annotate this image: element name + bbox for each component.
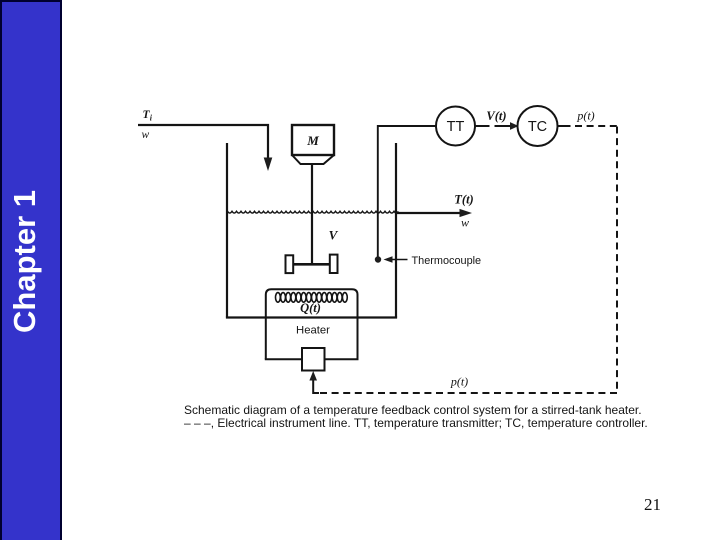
wire: dashed electrical line bottom to control valve — [309, 371, 617, 393]
svg-text:w: w — [142, 129, 150, 141]
svg-text:TC: TC — [528, 119, 547, 135]
stirrer blade right — [330, 255, 338, 273]
tank vessel walls — [226, 143, 397, 318]
svg-text:Q(t): Q(t) — [300, 301, 321, 315]
thermocouple pointer arrow — [384, 256, 408, 263]
stirrer paddle bar — [293, 263, 332, 266]
wire: thermocouple lead to TT — [378, 126, 436, 257]
liquid surface (wavy line) — [228, 211, 399, 213]
caption text — [184, 404, 648, 429]
motor M (agitator drive) — [292, 125, 334, 164]
svg-text:V(t): V(t) — [486, 109, 506, 123]
svg-text:T(t): T(t) — [454, 193, 473, 207]
svg-text:p(t): p(t) — [450, 375, 468, 389]
heating coil Q(t): loop row — [276, 293, 348, 303]
heater housing connector left — [265, 358, 302, 360]
svg-text:M: M — [306, 133, 319, 148]
instrument TC (temperature controller) — [518, 106, 558, 146]
svg-text:V: V — [329, 228, 339, 243]
chapter sidebar label 'Chapter 1' — [7, 192, 38, 333]
node: thermocouple junction dot — [375, 256, 381, 262]
chapter sidebar — [0, 0, 62, 540]
control valve box under heater — [302, 348, 325, 371]
instrument TT (temperature transmitter) — [436, 107, 475, 146]
wire: dashed electrical line TC to right then down — [558, 126, 618, 393]
svg-text:i: i — [150, 114, 153, 123]
stirrer blade left — [286, 255, 294, 273]
wire: dashed signal arrow TT to TC, V(t) — [476, 122, 519, 130]
svg-text:p(t): p(t) — [576, 109, 594, 123]
svg-text:w: w — [461, 216, 469, 230]
wire: inlet feed line Ti,w into tank — [138, 125, 272, 171]
svg-text:Heater: Heater — [296, 325, 330, 337]
wire: outlet stream arrow T(t), w — [396, 209, 472, 217]
heater housing connector right — [325, 358, 359, 360]
stirrer shaft — [311, 164, 313, 263]
heater enclosure (rounded-top housing) — [266, 289, 358, 359]
svg-text:TT: TT — [447, 119, 465, 135]
node label Ti (inlet temperature) — [143, 109, 153, 123]
page number 21 — [644, 495, 661, 515]
svg-text:Thermocouple: Thermocouple — [412, 255, 482, 267]
